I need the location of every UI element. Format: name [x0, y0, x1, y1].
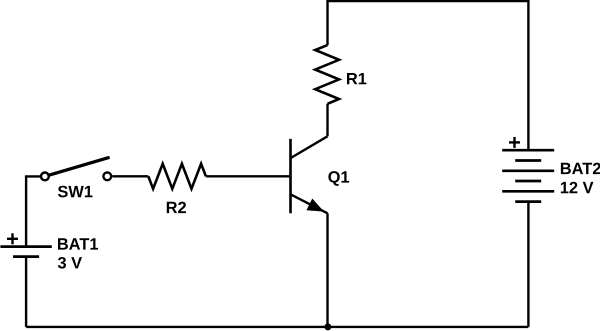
wire: R1 bottom lead to Q1 collector: [326, 104, 328, 137]
resistor R2: [148, 164, 206, 189]
wire: R2 to Q1 base: [206, 175, 289, 177]
label BAT1: [58, 238, 98, 249]
wire: right rail upper (top rail down to BAT2 +): [527, 0, 529, 150]
battery BAT1: [0, 247, 51, 257]
label BAT2: [561, 163, 600, 174]
wire: R1 top lead from top rail: [326, 0, 328, 45]
polarity + of BAT1: [7, 233, 18, 244]
label SW1: [58, 186, 93, 198]
wire: SW1 right terminal to R2: [112, 175, 148, 177]
label Q1: [328, 171, 349, 186]
value 3 V: [58, 257, 82, 269]
value 12 V: [561, 182, 594, 193]
label R2: [167, 202, 186, 213]
wire: left rail lower (BAT1 - to bottom rail): [25, 257, 27, 327]
wire: Q1 emitter to bottom rail: [326, 213, 328, 327]
polarity + of BAT2: [509, 137, 520, 148]
switch SW1: [41, 158, 111, 181]
wire: right rail lower (BAT2 - to bottom rail): [527, 202, 529, 327]
wire: bottom rail: [26, 326, 528, 328]
junction dot (emitter to bottom rail): [324, 323, 331, 330]
resistor R1: [315, 45, 339, 104]
battery BAT2: [502, 150, 554, 201]
wire: left rail upper + stub to SW1 left terminal: [26, 176, 40, 246]
label R1: [347, 73, 366, 84]
wire: top rail (R1 top to BAT2 top): [327, 0, 529, 2]
transistor Q1: [291, 136, 328, 213]
